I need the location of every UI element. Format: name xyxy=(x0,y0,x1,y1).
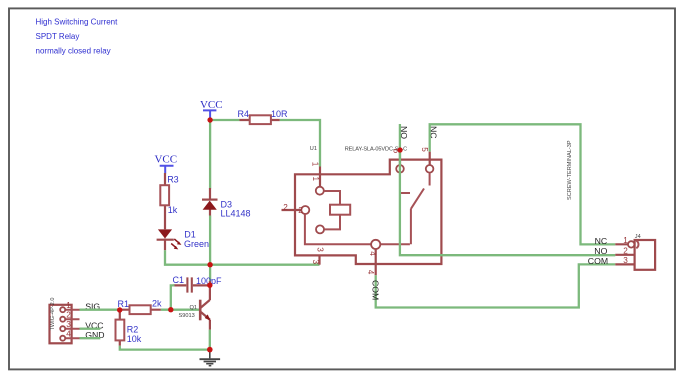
svg-text:R3: R3 xyxy=(167,175,179,185)
resistor R4 xyxy=(240,115,280,124)
junction C1-collector xyxy=(207,283,212,288)
svg-text:2: 2 xyxy=(66,311,71,320)
wire VCC down to D3 xyxy=(209,120,211,189)
wire NO stub xyxy=(399,124,401,150)
svg-text:S9013: S9013 xyxy=(179,313,195,319)
wire COM route xyxy=(376,264,616,307)
svg-text:2: 2 xyxy=(623,246,628,255)
svg-text:10k: 10k xyxy=(127,334,142,344)
wire SIG xyxy=(80,309,120,311)
wire NO through relay to terminal xyxy=(400,150,615,255)
junction node VCC xyxy=(207,117,212,122)
resistor R2 xyxy=(116,310,125,346)
svg-text:2: 2 xyxy=(283,203,288,212)
annotation text xyxy=(36,17,119,55)
svg-text:normally closed relay: normally closed relay xyxy=(36,46,111,55)
wire VCC to R4 xyxy=(210,119,239,121)
junction node A xyxy=(207,262,212,267)
wire R1 to Q1 base xyxy=(161,309,200,311)
svg-text:High Switching Current: High Switching Current xyxy=(36,17,119,26)
wire emitter to ground xyxy=(209,330,211,350)
svg-text:3: 3 xyxy=(311,260,320,265)
svg-text:1: 1 xyxy=(66,301,71,310)
svg-text:NC: NC xyxy=(595,236,608,246)
svg-text:3: 3 xyxy=(66,320,71,329)
svg-text:VCC: VCC xyxy=(154,153,177,165)
svg-text:U1: U1 xyxy=(310,146,317,152)
resistor R3 xyxy=(160,173,169,229)
svg-text:COM: COM xyxy=(588,256,608,266)
junction NO xyxy=(398,147,403,152)
resistor R1 xyxy=(120,305,161,314)
svg-text:2: 2 xyxy=(298,206,303,215)
wire R4 to relay pin 1 xyxy=(280,120,320,167)
wire NC route xyxy=(430,124,616,244)
svg-text:3: 3 xyxy=(623,256,628,265)
svg-text:4: 4 xyxy=(368,251,377,256)
relay U1 RELAY-SLA-05VDC-SL-C xyxy=(282,151,442,276)
diode D3 LL4148 xyxy=(202,188,218,216)
svg-text:LL4148: LL4148 xyxy=(221,209,251,219)
svg-text:SCREW-TERMINAL-3P: SCREW-TERMINAL-3P xyxy=(567,140,573,200)
svg-text:1k: 1k xyxy=(168,205,178,215)
svg-text:COM: COM xyxy=(370,280,380,300)
connector J1 TWIG-4P-2.0 xyxy=(50,305,80,344)
wire node A down to Q1 collector xyxy=(209,265,211,281)
wire GND stub xyxy=(80,337,101,339)
svg-text:3: 3 xyxy=(315,247,324,252)
svg-text:1: 1 xyxy=(311,177,320,182)
svg-text:Q1: Q1 xyxy=(190,305,197,311)
power flag VCC (left) xyxy=(154,153,177,173)
junction base node xyxy=(117,307,122,312)
svg-text:4: 4 xyxy=(66,330,71,339)
wire D3 to node A xyxy=(209,216,211,265)
svg-text:4: 4 xyxy=(366,270,375,275)
svg-text:R4: R4 xyxy=(238,109,250,119)
svg-text:10R: 10R xyxy=(271,109,288,119)
svg-text:2k: 2k xyxy=(152,298,162,308)
junction R1-C1-base xyxy=(168,307,173,312)
wire node A to relay pin 3 xyxy=(210,264,319,266)
svg-text:1: 1 xyxy=(311,162,320,167)
svg-text:C1: C1 xyxy=(173,275,185,285)
power flag VCC (top) xyxy=(200,99,223,119)
svg-text:R1: R1 xyxy=(118,299,130,309)
svg-text:TWIG-4P-2.0: TWIG-4P-2.0 xyxy=(50,298,56,331)
svg-text:1: 1 xyxy=(623,236,628,245)
wire C1 left leg xyxy=(171,285,175,309)
svg-text:NO: NO xyxy=(594,246,607,256)
connector J4 screw terminal xyxy=(615,240,655,270)
wire VCC stub xyxy=(80,328,101,330)
LED D1 Green xyxy=(157,229,182,250)
ground xyxy=(200,350,221,366)
svg-text:SPDT Relay: SPDT Relay xyxy=(36,32,80,41)
junction ground node xyxy=(207,347,213,353)
svg-text:J4: J4 xyxy=(635,234,641,240)
svg-text:VCC: VCC xyxy=(200,99,223,111)
capacitor C1 xyxy=(174,277,210,292)
wire D1 to node A xyxy=(165,250,210,264)
svg-text:Green: Green xyxy=(184,239,209,249)
wire R2 to ground rail xyxy=(120,346,210,350)
transistor Q1 S9013 xyxy=(200,281,210,330)
svg-text:5: 5 xyxy=(420,147,429,152)
